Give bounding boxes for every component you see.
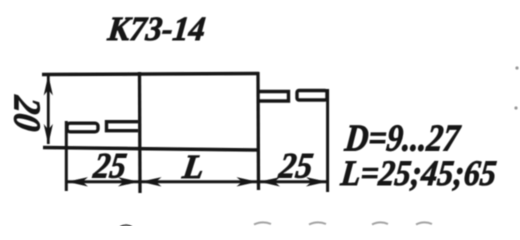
right lead tab outer xyxy=(297,91,327,101)
scan artifact arcs bottom xyxy=(120,222,433,227)
dimension 20 vertical dimension line xyxy=(47,76,50,144)
svg-text:L=25;45;65: L=25;45;65 xyxy=(338,153,498,193)
left lead tab inner xyxy=(107,122,139,131)
svg-text:25: 25 xyxy=(276,146,316,186)
bottom dimension line xyxy=(66,180,327,183)
left extension line xyxy=(65,121,68,191)
svg-text:25: 25 xyxy=(90,146,128,186)
svg-text:20: 20 xyxy=(6,93,48,134)
svg-text:К73-14: К73-14 xyxy=(105,11,207,48)
scan specks right edge xyxy=(514,66,518,109)
arrow right 25 right xyxy=(306,177,327,186)
capacitor body left edge xyxy=(138,72,142,193)
capacitor body right edge xyxy=(256,72,260,190)
arrowhead down (20) xyxy=(44,124,53,145)
right extension line xyxy=(326,89,329,192)
right lead tab inner xyxy=(259,92,289,102)
arrow L right xyxy=(237,177,258,186)
capacitor body top edge xyxy=(42,74,259,75)
arrow left 25 right xyxy=(118,177,139,186)
arrow L left xyxy=(141,177,162,186)
arrowhead up (20) xyxy=(44,75,53,96)
capacitor body bottom edge xyxy=(43,148,258,151)
arrow left 25 left xyxy=(67,177,88,186)
left lead tab outer xyxy=(67,123,98,132)
arrow right 25 left xyxy=(259,177,280,186)
